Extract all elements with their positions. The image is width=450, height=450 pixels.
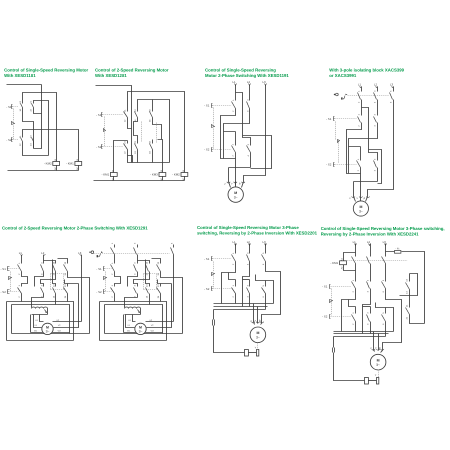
- svg-text:21: 21: [19, 135, 22, 138]
- dashed link S1 P1: [13, 106, 19, 108]
- wire bus3 P7: [334, 336, 386, 338]
- svg-text:With XESD1181: With XESD1181: [4, 73, 36, 78]
- wire rail L3 P4: [393, 87, 395, 92]
- svg-text:1: 1: [357, 90, 360, 92]
- svg-text:A1: A1: [112, 169, 115, 172]
- dashed link tri-S2 P5: [10, 280, 12, 292]
- contact KM1 1-2 (P4): [361, 116, 363, 124]
- wire bottom U2 P5: [7, 340, 74, 342]
- svg-text:- S2: - S2: [204, 148, 210, 152]
- svg-text:1: 1: [111, 284, 114, 286]
- wire st2c3 feed P6: [256, 275, 274, 304]
- svg-text:L3: L3: [78, 251, 82, 255]
- contact Q3 (P5R): [173, 248, 175, 256]
- contact Q1 (P5R): [114, 248, 116, 264]
- wire cross E P5: [68, 272, 90, 334]
- svg-text:U: U: [224, 182, 227, 184]
- contact KM3-1 (P5): [114, 287, 116, 294]
- svg-text:- S2: - S2: [326, 162, 332, 166]
- svg-text:34: 34: [157, 295, 160, 298]
- svg-text:14: 14: [19, 108, 22, 111]
- contact KM2 3-4 (P6): [249, 280, 251, 294]
- motor leads P7: [374, 332, 383, 353]
- contact KM1 5-6 (P7): [385, 282, 387, 290]
- contact KM3-2 (P5): [43, 287, 45, 294]
- svg-text:U: U: [249, 319, 252, 321]
- wire c2 out cross P3: [224, 109, 250, 159]
- contact Q3 (P7): [385, 257, 387, 282]
- svg-text:21: 21: [406, 304, 409, 307]
- contact KM2-2 (P5): [160, 264, 162, 272]
- svg-text:U: U: [370, 347, 373, 349]
- contact KM3-2 (P5): [137, 287, 139, 294]
- brake rect P7: [365, 378, 369, 385]
- svg-text:U1: U1: [35, 319, 39, 322]
- motor terminal cups P6: [252, 322, 255, 323]
- svg-text:With XESD1281: With XESD1281: [95, 73, 127, 78]
- svg-text:2: 2: [111, 296, 114, 298]
- wire stage2 feed staircase P4: [362, 108, 378, 161]
- svg-text:12: 12: [124, 119, 127, 122]
- wire stage2 c1 out P3: [235, 154, 237, 186]
- wire c1 out cross P6: [222, 262, 236, 304]
- wire box top1 P5: [7, 302, 74, 341]
- dashed link S1-S2 P7: [331, 289, 333, 300]
- wire rail L1 P4: [361, 87, 363, 92]
- svg-text:3~: 3~: [139, 330, 143, 334]
- motor leads left P5: [31, 315, 44, 333]
- dashed link S2 P5: [105, 291, 112, 293]
- svg-text:1: 1: [357, 158, 360, 160]
- wire rail L2 P5: [43, 256, 45, 264]
- dashed mech link c3 P2: [156, 123, 158, 143]
- svg-text:4: 4: [247, 155, 250, 157]
- contact KM1 1-2 (P7): [355, 282, 357, 290]
- svg-text:6: 6: [389, 101, 392, 103]
- wire st2c2 feed P7: [363, 306, 371, 308]
- svg-text:3~: 3~: [359, 209, 363, 213]
- dashed link S2 P2: [103, 146, 124, 148]
- wire bus2 P7: [334, 333, 389, 335]
- dashed motor-brake link P7: [378, 370, 380, 378]
- svg-text:6: 6: [382, 323, 385, 325]
- svg-text:1: 1: [232, 99, 235, 101]
- wire c3 out cross P7: [383, 290, 402, 351]
- dashed link S2 P4: [335, 164, 357, 166]
- motor leads right P5: [146, 284, 174, 333]
- svg-text:14: 14: [145, 295, 148, 298]
- svg-text:W: W: [379, 346, 382, 349]
- wire stage2 right out P1: [33, 145, 35, 149]
- fuse F1 P7: [395, 251, 401, 254]
- contact KM2 11-12 (P2): [127, 112, 129, 119]
- svg-text:- S1: - S1: [322, 284, 328, 288]
- svg-text:1: 1: [352, 312, 355, 314]
- wire branch KM2 feed P1: [23, 93, 57, 162]
- svg-text:33: 33: [149, 109, 152, 112]
- wire cross D P5: [146, 260, 150, 287]
- dashed link triangle-S2 P3: [213, 129, 215, 150]
- coil KM2 (P1): [53, 162, 60, 166]
- contact KM1 3-4 (P3): [249, 101, 251, 109]
- dashed isolator link P7: [347, 260, 408, 262]
- motor terminal cups P3: [227, 182, 230, 183]
- svg-text:3~: 3~: [46, 330, 50, 334]
- contact KM2 1-2 (P3): [235, 132, 237, 154]
- svg-text:3: 3: [247, 143, 250, 145]
- svg-text:- S1: - S1: [204, 104, 210, 108]
- svg-text:2: 2: [232, 155, 235, 157]
- wire branch inner P1: [34, 101, 49, 156]
- svg-text:22: 22: [406, 316, 409, 319]
- dashed link triangle-S2 P7: [331, 303, 333, 316]
- wire rail L1 P3: [235, 85, 237, 101]
- wire st2c1 feed P7: [349, 300, 356, 307]
- svg-text:4: 4: [246, 263, 249, 265]
- dashed link S1-S2 P4: [335, 122, 337, 140]
- dashed link triangle-S2 P4: [338, 143, 340, 164]
- wire rails P7: [356, 244, 386, 257]
- wire rail L1 P5: [21, 256, 23, 264]
- brake rect P6: [245, 350, 249, 357]
- wire stage2 outs P5: [22, 294, 68, 305]
- svg-text:5: 5: [382, 279, 385, 281]
- wire bus1 P7: [334, 331, 394, 333]
- wire brake link P7: [369, 380, 377, 382]
- wire bus1 P6: [214, 303, 274, 305]
- interlock triangle P6: [212, 273, 215, 276]
- fuse wire P7: [386, 252, 425, 324]
- dashed mech link c2 P2: [141, 122, 143, 142]
- svg-text:34: 34: [64, 295, 67, 298]
- svg-text:1: 1: [357, 113, 360, 115]
- svg-text:L2: L2: [247, 240, 251, 244]
- wire box left2 P5: [11, 305, 13, 334]
- isolator handle Q (P4): [334, 94, 335, 95]
- svg-text:2: 2: [18, 273, 21, 275]
- contact S2a (P2): [127, 141, 129, 151]
- contact Q1 (P7): [355, 257, 357, 282]
- wire c4 feed P5: [152, 259, 161, 264]
- dashed link S1-S2 P5: [10, 272, 12, 277]
- wire stage2 outs P6: [236, 294, 266, 310]
- svg-text:- S1: - S1: [6, 105, 12, 109]
- svg-text:4: 4: [373, 101, 376, 103]
- wire supply top P1: [7, 84, 42, 86]
- dashed link S1-S2 P3: [213, 108, 215, 125]
- wire stage2 c2 out P2: [137, 151, 139, 163]
- svg-text:L3: L3: [383, 240, 387, 244]
- svg-text:3: 3: [367, 312, 370, 314]
- svg-text:M: M: [234, 191, 237, 195]
- svg-text:3: 3: [373, 113, 376, 115]
- wire outer box P2: [128, 92, 185, 173]
- dashed link S1-S2 P2: [104, 117, 106, 129]
- wire stage2 c1 out P4: [360, 168, 362, 197]
- inductor T1 P5: [32, 307, 48, 309]
- contact KM4-1 (P5): [149, 287, 151, 294]
- dashed motor-brake link P6: [257, 343, 259, 350]
- svg-text:14: 14: [406, 291, 409, 294]
- svg-text:22: 22: [30, 108, 33, 111]
- wire c2 out cross P7: [363, 290, 371, 334]
- svg-text:1: 1: [232, 252, 235, 254]
- svg-text:24: 24: [30, 143, 33, 146]
- motor leads P4: [354, 197, 368, 202]
- svg-text:L1: L1: [353, 240, 357, 244]
- inductor T1 P5: [125, 307, 141, 309]
- svg-text:- KM3: - KM3: [150, 173, 158, 177]
- svg-text:M: M: [46, 325, 49, 329]
- svg-text:L2: L2: [367, 240, 371, 244]
- svg-text:Control of Single-Speed Revers: Control of Single-Speed Reversing Motor …: [321, 226, 445, 231]
- svg-text:21: 21: [124, 141, 127, 144]
- wire cross E P5: [161, 272, 183, 334]
- svg-text:1: 1: [111, 262, 114, 264]
- contact Q2 (P5R): [137, 248, 139, 264]
- svg-text:V1: V1: [127, 324, 130, 327]
- svg-text:L3: L3: [262, 80, 266, 84]
- svg-text:- S2: - S2: [322, 314, 328, 318]
- svg-text:M: M: [256, 331, 259, 335]
- svg-text:1: 1: [18, 262, 21, 264]
- svg-text:U: U: [348, 197, 351, 199]
- svg-text:2: 2: [111, 273, 114, 275]
- svg-text:Control of 2-Speed Reversing M: Control of 2-Speed Reversing Motor 2-Pha…: [2, 225, 148, 230]
- svg-text:13: 13: [19, 100, 22, 103]
- contact S2a 21-22 (P1): [22, 138, 24, 145]
- svg-text:4: 4: [40, 273, 43, 275]
- contact KM2 3-4 (P7): [370, 307, 372, 322]
- svg-text:- F1: - F1: [395, 247, 400, 250]
- wire right loop P4: [369, 150, 382, 184]
- svg-text:- KM2: - KM2: [172, 173, 180, 177]
- svg-text:V: V: [374, 347, 377, 349]
- contact KM1 33-34 (P2): [152, 112, 154, 119]
- wire aux top link P7: [400, 274, 418, 296]
- svg-text:44: 44: [149, 151, 152, 154]
- wire stage2 c2 out P4: [354, 168, 378, 197]
- svg-text:- S2: - S2: [6, 138, 12, 142]
- wire st2c2 feed P6: [243, 279, 250, 281]
- wire c3 feed P5: [138, 261, 150, 264]
- svg-text:2: 2: [352, 323, 355, 325]
- interlock triangle P1: [12, 122, 15, 125]
- svg-text:33: 33: [64, 284, 67, 287]
- wire stage2 top rail P1: [23, 130, 79, 162]
- contact KM1 13-14 (P1): [22, 104, 24, 111]
- wire coil KM2 bottom P1: [56, 166, 58, 171]
- motor leads right P5: [53, 284, 82, 333]
- svg-text:14: 14: [52, 295, 55, 298]
- svg-text:- S2: - S2: [204, 287, 210, 291]
- dashed mech box P5: [144, 274, 157, 290]
- wire rails P6: [236, 244, 266, 254]
- wire rail L3 lower P5R: [173, 256, 175, 322]
- motor M (P5R): [135, 323, 146, 334]
- svg-text:33: 33: [64, 261, 67, 264]
- wire stage2 feed staircase P3: [236, 93, 251, 146]
- wire stage2 c2 out P3: [229, 154, 251, 182]
- contact KM3-1 (P5): [21, 287, 23, 294]
- svg-text:V2: V2: [58, 324, 61, 327]
- svg-text:L3: L3: [390, 82, 394, 86]
- contact Q2 (P7): [370, 257, 372, 282]
- svg-text:5: 5: [262, 252, 265, 254]
- svg-text:3: 3: [133, 242, 136, 244]
- contact KM2 1-2 (P6): [235, 280, 237, 294]
- svg-text:M: M: [377, 359, 380, 363]
- svg-text:3: 3: [40, 262, 43, 264]
- wire c2 out cross P6: [243, 262, 250, 307]
- svg-text:Y: Y: [375, 374, 377, 377]
- wire box left2 P5: [104, 305, 106, 334]
- dashed link S1 P3: [213, 105, 232, 107]
- svg-text:- KM1: - KM1: [101, 173, 109, 177]
- wire cross A P5: [22, 272, 28, 287]
- coil KM2 (P2): [181, 173, 188, 177]
- svg-text:- S1: - S1: [326, 117, 332, 121]
- svg-text:L1: L1: [232, 240, 236, 244]
- dashed link S2 P1: [13, 139, 19, 141]
- wire xfmr feed P5: [125, 298, 138, 308]
- svg-text:3~: 3~: [256, 336, 260, 340]
- contact KM3 13-14 (P2): [137, 112, 139, 119]
- interlock triangle P2: [104, 129, 106, 132]
- wire st2c1 feed P6: [229, 273, 236, 280]
- dashed isolator link P5R: [94, 253, 170, 255]
- wire c1 out cross P7: [342, 290, 356, 332]
- svg-text:2: 2: [352, 290, 355, 292]
- dashed isolator link P4: [348, 95, 390, 97]
- svg-text:4: 4: [367, 290, 370, 292]
- contact Q3 (P4): [393, 92, 395, 110]
- contact S2b (P2): [137, 144, 139, 151]
- svg-text:1: 1: [18, 284, 21, 286]
- svg-text:Control of Single-Speed Revers: Control of Single-Speed Reversing Motor …: [197, 225, 299, 230]
- wire c1 out cross P4: [347, 124, 362, 174]
- wire stage2 box bottom P1: [23, 145, 49, 156]
- wire xfmr out P5: [32, 309, 48, 315]
- svg-text:13: 13: [134, 109, 137, 112]
- svg-text:5: 5: [262, 284, 265, 286]
- dashed link S1 P2: [103, 114, 124, 116]
- wire cross B P5: [128, 272, 138, 287]
- dashed link S1-S2 P6: [213, 262, 215, 272]
- wire right loop P3: [243, 136, 272, 169]
- wire brake link P6: [249, 352, 257, 354]
- contact KM1-2 (P5): [43, 264, 45, 272]
- wire c4 stage2 feed P5: [158, 280, 172, 287]
- wire xfmr out P5: [125, 309, 141, 315]
- dashed link triangle-S2 P1: [13, 126, 15, 140]
- interlock triangle P5: [104, 277, 107, 280]
- wire cross B P5: [35, 272, 44, 287]
- contact KM4-1 (P5): [55, 287, 57, 294]
- svg-text:or XACS3991: or XACS3991: [329, 73, 357, 78]
- contact KM1-1 (P5): [21, 264, 23, 272]
- coil KM3 (P2): [159, 173, 166, 177]
- coil KM1 (P7): [340, 261, 347, 265]
- wire rail mid L1 P4: [361, 108, 363, 116]
- wire stage2 c1 out P2: [128, 151, 170, 163]
- wire bottom U1 P5: [12, 333, 90, 335]
- svg-text:3~: 3~: [234, 195, 238, 199]
- contact S2c 43-44 (P2): [152, 140, 154, 151]
- contact KM aux 21-22 (P7): [409, 296, 411, 315]
- wire stage2 outs P7: [356, 322, 386, 337]
- wire box left1 P5: [6, 302, 8, 341]
- interlock triangle P7: [330, 300, 333, 303]
- wire bottom U2 P5: [100, 340, 167, 342]
- dashed link S2 P5: [10, 291, 19, 293]
- svg-text:L1: L1: [19, 251, 23, 255]
- dashed link triangle-S2 P6: [213, 276, 215, 289]
- wire rail L2 P3: [249, 85, 251, 101]
- coil KM1 (P2): [110, 173, 117, 177]
- contact KM2 5-6 (P6): [265, 281, 267, 294]
- svg-text:- KM1: - KM1: [330, 261, 338, 265]
- svg-text:3: 3: [133, 284, 136, 286]
- svg-text:L3: L3: [262, 240, 266, 244]
- wire cross A P5: [115, 272, 121, 287]
- svg-text:2: 2: [357, 125, 360, 127]
- contact KM1-2 (P5): [137, 264, 139, 272]
- wire cross D P5: [53, 260, 56, 287]
- svg-text:5: 5: [170, 242, 173, 244]
- svg-text:- S2: - S2: [96, 145, 102, 149]
- svg-text:33: 33: [157, 261, 160, 264]
- wire right drop P1: [34, 85, 42, 149]
- wire stage2 c3 out P2: [152, 151, 154, 163]
- wire rail L3 lower P4: [368, 110, 394, 197]
- wire rail L2 P4: [377, 87, 379, 92]
- interlock triangle P4: [338, 140, 340, 143]
- coil KM1 (P1): [75, 162, 82, 166]
- wire cross C P5: [134, 272, 150, 287]
- wire aux bottom link P7: [410, 315, 425, 324]
- contact KM1 1-2 (P6): [235, 254, 237, 262]
- dashed link S1-S2 P5: [105, 272, 107, 277]
- svg-text:- KM1: - KM1: [66, 162, 74, 166]
- svg-text:3: 3: [373, 90, 376, 92]
- dashed link S2 P3: [213, 149, 232, 151]
- contact KM aux 13-14 (P7): [409, 274, 411, 296]
- wire bottom return P1: [8, 170, 79, 172]
- svg-text:- S1: - S1: [96, 267, 102, 271]
- svg-text:5: 5: [382, 312, 385, 314]
- motor M1 (P6): [250, 327, 266, 343]
- motor leads P6: [254, 304, 262, 325]
- dashed link S1 P6: [213, 258, 232, 260]
- svg-text:6: 6: [382, 290, 385, 292]
- dashed link S1-S2 P1: [13, 109, 15, 122]
- wire bottom U1 P5: [105, 333, 183, 335]
- motor M (P5L): [42, 323, 53, 334]
- interlock triangle P3: [212, 125, 215, 128]
- svg-text:1: 1: [232, 284, 235, 286]
- svg-text:V2: V2: [151, 324, 154, 327]
- svg-text:6: 6: [262, 263, 265, 265]
- brake bar P7: [377, 378, 379, 385]
- svg-text:3: 3: [246, 284, 249, 286]
- svg-text:- S1: - S1: [1, 267, 7, 271]
- wire box left1 P5: [99, 302, 101, 341]
- motor leads left P5: [124, 315, 136, 333]
- svg-text:4: 4: [246, 296, 249, 298]
- thermal contact bars P6: [213, 320, 215, 326]
- svg-text:1: 1: [352, 279, 355, 281]
